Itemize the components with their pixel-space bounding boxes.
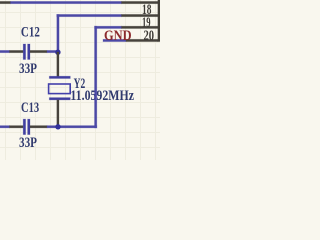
wire ground rail to C13 <box>0 126 10 128</box>
wire ground rail to C12 <box>0 50 10 52</box>
capacitor C12 right pin <box>30 50 47 52</box>
pin 20 <box>126 39 158 41</box>
junction node XTAL2 <box>55 50 60 55</box>
wire C13 to crystal node <box>47 126 58 128</box>
wire XTAL1 bottom horizontal <box>58 126 97 128</box>
svg-text:C12: C12 <box>21 25 40 41</box>
crystal Y2 bottom pin <box>57 100 59 127</box>
svg-text:33P: 33P <box>19 61 37 77</box>
capacitor C12 left pin <box>10 50 24 52</box>
capacitor C13 right pin <box>30 126 47 128</box>
IC U? body left edge <box>158 0 160 42</box>
crystal Y2 body <box>49 84 71 94</box>
pin 18 <box>122 14 159 16</box>
crystal Y2 bottom plate <box>49 98 70 100</box>
pin 17 <box>122 1 159 3</box>
wire C12 to crystal node <box>47 50 59 52</box>
svg-text:33P: 33P <box>19 135 37 151</box>
wire net pin17 <box>11 1 122 3</box>
svg-text:20: 20 <box>144 28 155 44</box>
capacitor C13 left pin <box>10 126 24 128</box>
wire GND net to pin 20 <box>103 39 126 41</box>
pin 19 <box>122 26 159 28</box>
wire XTAL1 vertical <box>95 26 97 128</box>
crystal Y2 top plate <box>49 76 70 78</box>
wire XTAL1 horizontal to pin 19 <box>95 26 122 28</box>
svg-text:11.0592MHz: 11.0592MHz <box>70 88 134 104</box>
wire XTAL2 vertical <box>57 14 59 52</box>
junction node XTAL1 <box>55 124 60 129</box>
pin 17 stub (off-screen component, left) <box>0 1 11 3</box>
crystal Y2 top pin <box>57 52 59 77</box>
svg-text:C13: C13 <box>21 100 39 116</box>
capacitor C12 plates <box>23 44 25 60</box>
wire XTAL2 horizontal to pin 18 <box>57 14 122 16</box>
svg-text:GND: GND <box>104 28 132 44</box>
capacitor C13 plates <box>23 119 25 135</box>
